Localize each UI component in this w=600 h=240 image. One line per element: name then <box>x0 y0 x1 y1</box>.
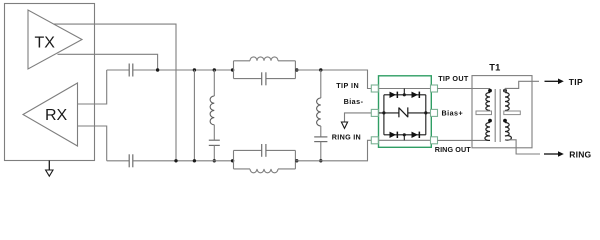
inductor L2 <box>250 57 278 61</box>
wire top rail <box>133 69 234 71</box>
wire RING through <box>379 139 431 141</box>
transformer secondary upper winding <box>503 88 509 110</box>
wire RX input 2 <box>78 126 107 161</box>
capacitor C3 <box>262 72 266 85</box>
svg-text:T1: T1 <box>489 62 500 72</box>
wire bias row <box>379 112 431 114</box>
wire RX input 1 <box>78 70 107 104</box>
node TX2/top-rail <box>156 68 159 71</box>
svg-text:Bias+: Bias+ <box>442 109 464 118</box>
node TX1/bottom-rail <box>174 159 177 162</box>
svg-text:Bias-: Bias- <box>344 97 364 106</box>
wire bottom rail <box>133 160 234 162</box>
svg-text:TIP IN: TIP IN <box>336 81 359 90</box>
wire TIP through <box>379 88 431 90</box>
wire TIP OUT <box>438 88 491 90</box>
node bridge left <box>382 111 385 114</box>
capacitor C1 <box>129 64 133 77</box>
ground <box>46 161 53 177</box>
inductor L4 <box>250 169 278 173</box>
capacitor C4 <box>314 137 327 161</box>
svg-text:RING OUT: RING OUT <box>435 145 471 154</box>
diode D3 <box>390 132 399 138</box>
transformer core <box>495 89 500 142</box>
pin bias-minus <box>371 109 378 116</box>
wire top rail right <box>295 70 371 89</box>
node shunt wire bottom <box>193 159 196 162</box>
arrow RING <box>544 151 564 157</box>
op-amp TX <box>28 10 82 69</box>
wire bottom rail left <box>107 160 130 162</box>
transformer primary upper winding <box>486 89 492 111</box>
wire TIP lead <box>505 81 539 88</box>
op-amp RX <box>23 83 78 146</box>
node bridge right <box>424 111 427 114</box>
node L1 branch top <box>213 68 216 71</box>
capacitor C6 <box>262 144 266 157</box>
node tank2 right <box>295 159 298 162</box>
svg-text:TIP OUT: TIP OUT <box>438 74 469 83</box>
wire shunt <box>193 70 195 161</box>
sidactor N <box>399 107 408 117</box>
transformer primary tap bar <box>476 111 492 115</box>
wire Bias- <box>345 113 372 122</box>
svg-text:RING: RING <box>569 150 591 160</box>
wire bottom rail right <box>295 140 371 161</box>
codec block box <box>5 4 95 161</box>
pin tip-out <box>431 85 438 92</box>
bridge frame <box>384 89 426 141</box>
capacitor C2 <box>209 140 220 161</box>
wire TX output 2 <box>58 54 158 70</box>
svg-text:RING IN: RING IN <box>332 133 361 142</box>
arrow Bias- ground <box>341 122 347 128</box>
node bridge top <box>403 93 406 96</box>
diode D1 <box>390 92 399 98</box>
node L3 branch top <box>319 68 322 71</box>
transformer T1 box <box>472 76 532 148</box>
wire RING lead <box>505 140 540 154</box>
protector U1 green box <box>379 76 432 148</box>
node tank2 left <box>231 159 234 162</box>
svg-text:RX: RX <box>45 107 68 124</box>
transformer primary lower winding <box>485 119 492 141</box>
LC tank 1 frame <box>234 61 296 79</box>
wire RING OUT <box>438 139 491 141</box>
node L3 branch bottom <box>319 159 322 162</box>
diode D2 <box>412 92 421 98</box>
svg-text:TX: TX <box>35 35 56 52</box>
wire top rail left <box>107 69 130 71</box>
LC tank 2 frame <box>234 150 296 169</box>
transformer secondary lower winding <box>503 119 511 140</box>
node L1 branch bottom <box>213 159 216 162</box>
transformer secondary tap bar <box>504 111 521 115</box>
svg-text:TIP: TIP <box>569 77 583 87</box>
diode D4 <box>412 132 421 138</box>
inductor L1 <box>210 70 214 140</box>
inductor L3 <box>317 70 321 137</box>
capacitor C5 <box>129 154 133 167</box>
node tank1 right <box>295 68 298 71</box>
pin ring-out <box>431 137 438 144</box>
node bridge bottom <box>403 133 406 136</box>
pin tip-in <box>371 85 378 92</box>
arrow TIP <box>545 79 564 85</box>
node tank1 left <box>231 68 234 71</box>
node shunt wire top <box>193 68 196 71</box>
pin bias-plus <box>431 109 438 116</box>
wire TX output 1 <box>54 24 177 161</box>
pin ring-in <box>371 137 378 144</box>
